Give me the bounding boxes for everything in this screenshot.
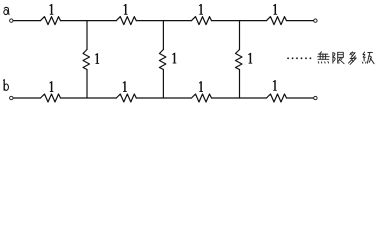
- resistor R1: [41, 17, 61, 25]
- terminal bottom right: [314, 96, 317, 99]
- value label 1 (R3): [199, 4, 203, 15]
- character 多: [349, 52, 357, 65]
- character 無: [318, 52, 330, 63]
- wire bottom rail: R10 to R11: [212, 97, 267, 99]
- wire bottom rail: R11 to right terminal: [287, 97, 314, 99]
- value label 1 (R9): [123, 81, 127, 92]
- value label 1 (R11): [273, 80, 277, 91]
- value label 1 (R4): [273, 4, 277, 15]
- resistor R10: [192, 94, 212, 102]
- node b label: [4, 80, 9, 91]
- resistor R6 (shunt 2): [159, 50, 166, 70]
- wire shunt 2 upper lead: [162, 21, 164, 50]
- terminal top right: [314, 19, 317, 22]
- resistor R8: [41, 94, 61, 102]
- resistor R9: [116, 94, 136, 102]
- node a label: [4, 7, 9, 14]
- wire top rail: R2 to R3: [136, 20, 191, 22]
- ellipsis dots (continuation): [287, 57, 311, 59]
- resistor R3: [192, 17, 212, 25]
- wire top rail: R1 to R2: [61, 20, 117, 22]
- annotation text 無限多級 (infinitely many stages): [318, 52, 374, 65]
- wire shunt 1 lower lead: [86, 70, 88, 99]
- resistor R4: [267, 17, 287, 25]
- wire shunt 3 lower lead: [239, 70, 241, 99]
- terminal b: [10, 96, 13, 99]
- wire top rail: terminal a to R1: [13, 20, 40, 22]
- value label 1 (R6): [172, 53, 176, 64]
- resistor R7 (shunt 3): [236, 50, 243, 70]
- value label 1 (R10): [199, 81, 203, 92]
- value label 1 (R7): [248, 53, 252, 64]
- character 限: [333, 52, 344, 63]
- value label 1 (R5): [95, 53, 99, 64]
- character 級: [362, 52, 374, 64]
- resistor R2: [116, 17, 136, 25]
- wire shunt 1 upper lead: [86, 21, 88, 50]
- value label 1 (R1): [49, 4, 53, 15]
- wire bottom rail: R8 to R9: [61, 97, 117, 99]
- value label 1 (R2): [124, 4, 128, 15]
- resistor R5 (shunt 1): [83, 50, 90, 70]
- wire bottom rail: terminal b to R8: [13, 97, 40, 99]
- value label 1 (R8): [49, 81, 53, 92]
- wire top rail: R3 to R4: [212, 20, 267, 22]
- resistor R11: [267, 94, 287, 102]
- terminal a: [10, 19, 13, 22]
- wire shunt 3 upper lead: [239, 21, 241, 50]
- wire shunt 2 lower lead: [162, 70, 164, 99]
- wire top rail: R4 to right terminal: [287, 20, 314, 22]
- wire bottom rail: R9 to R10: [136, 97, 191, 99]
